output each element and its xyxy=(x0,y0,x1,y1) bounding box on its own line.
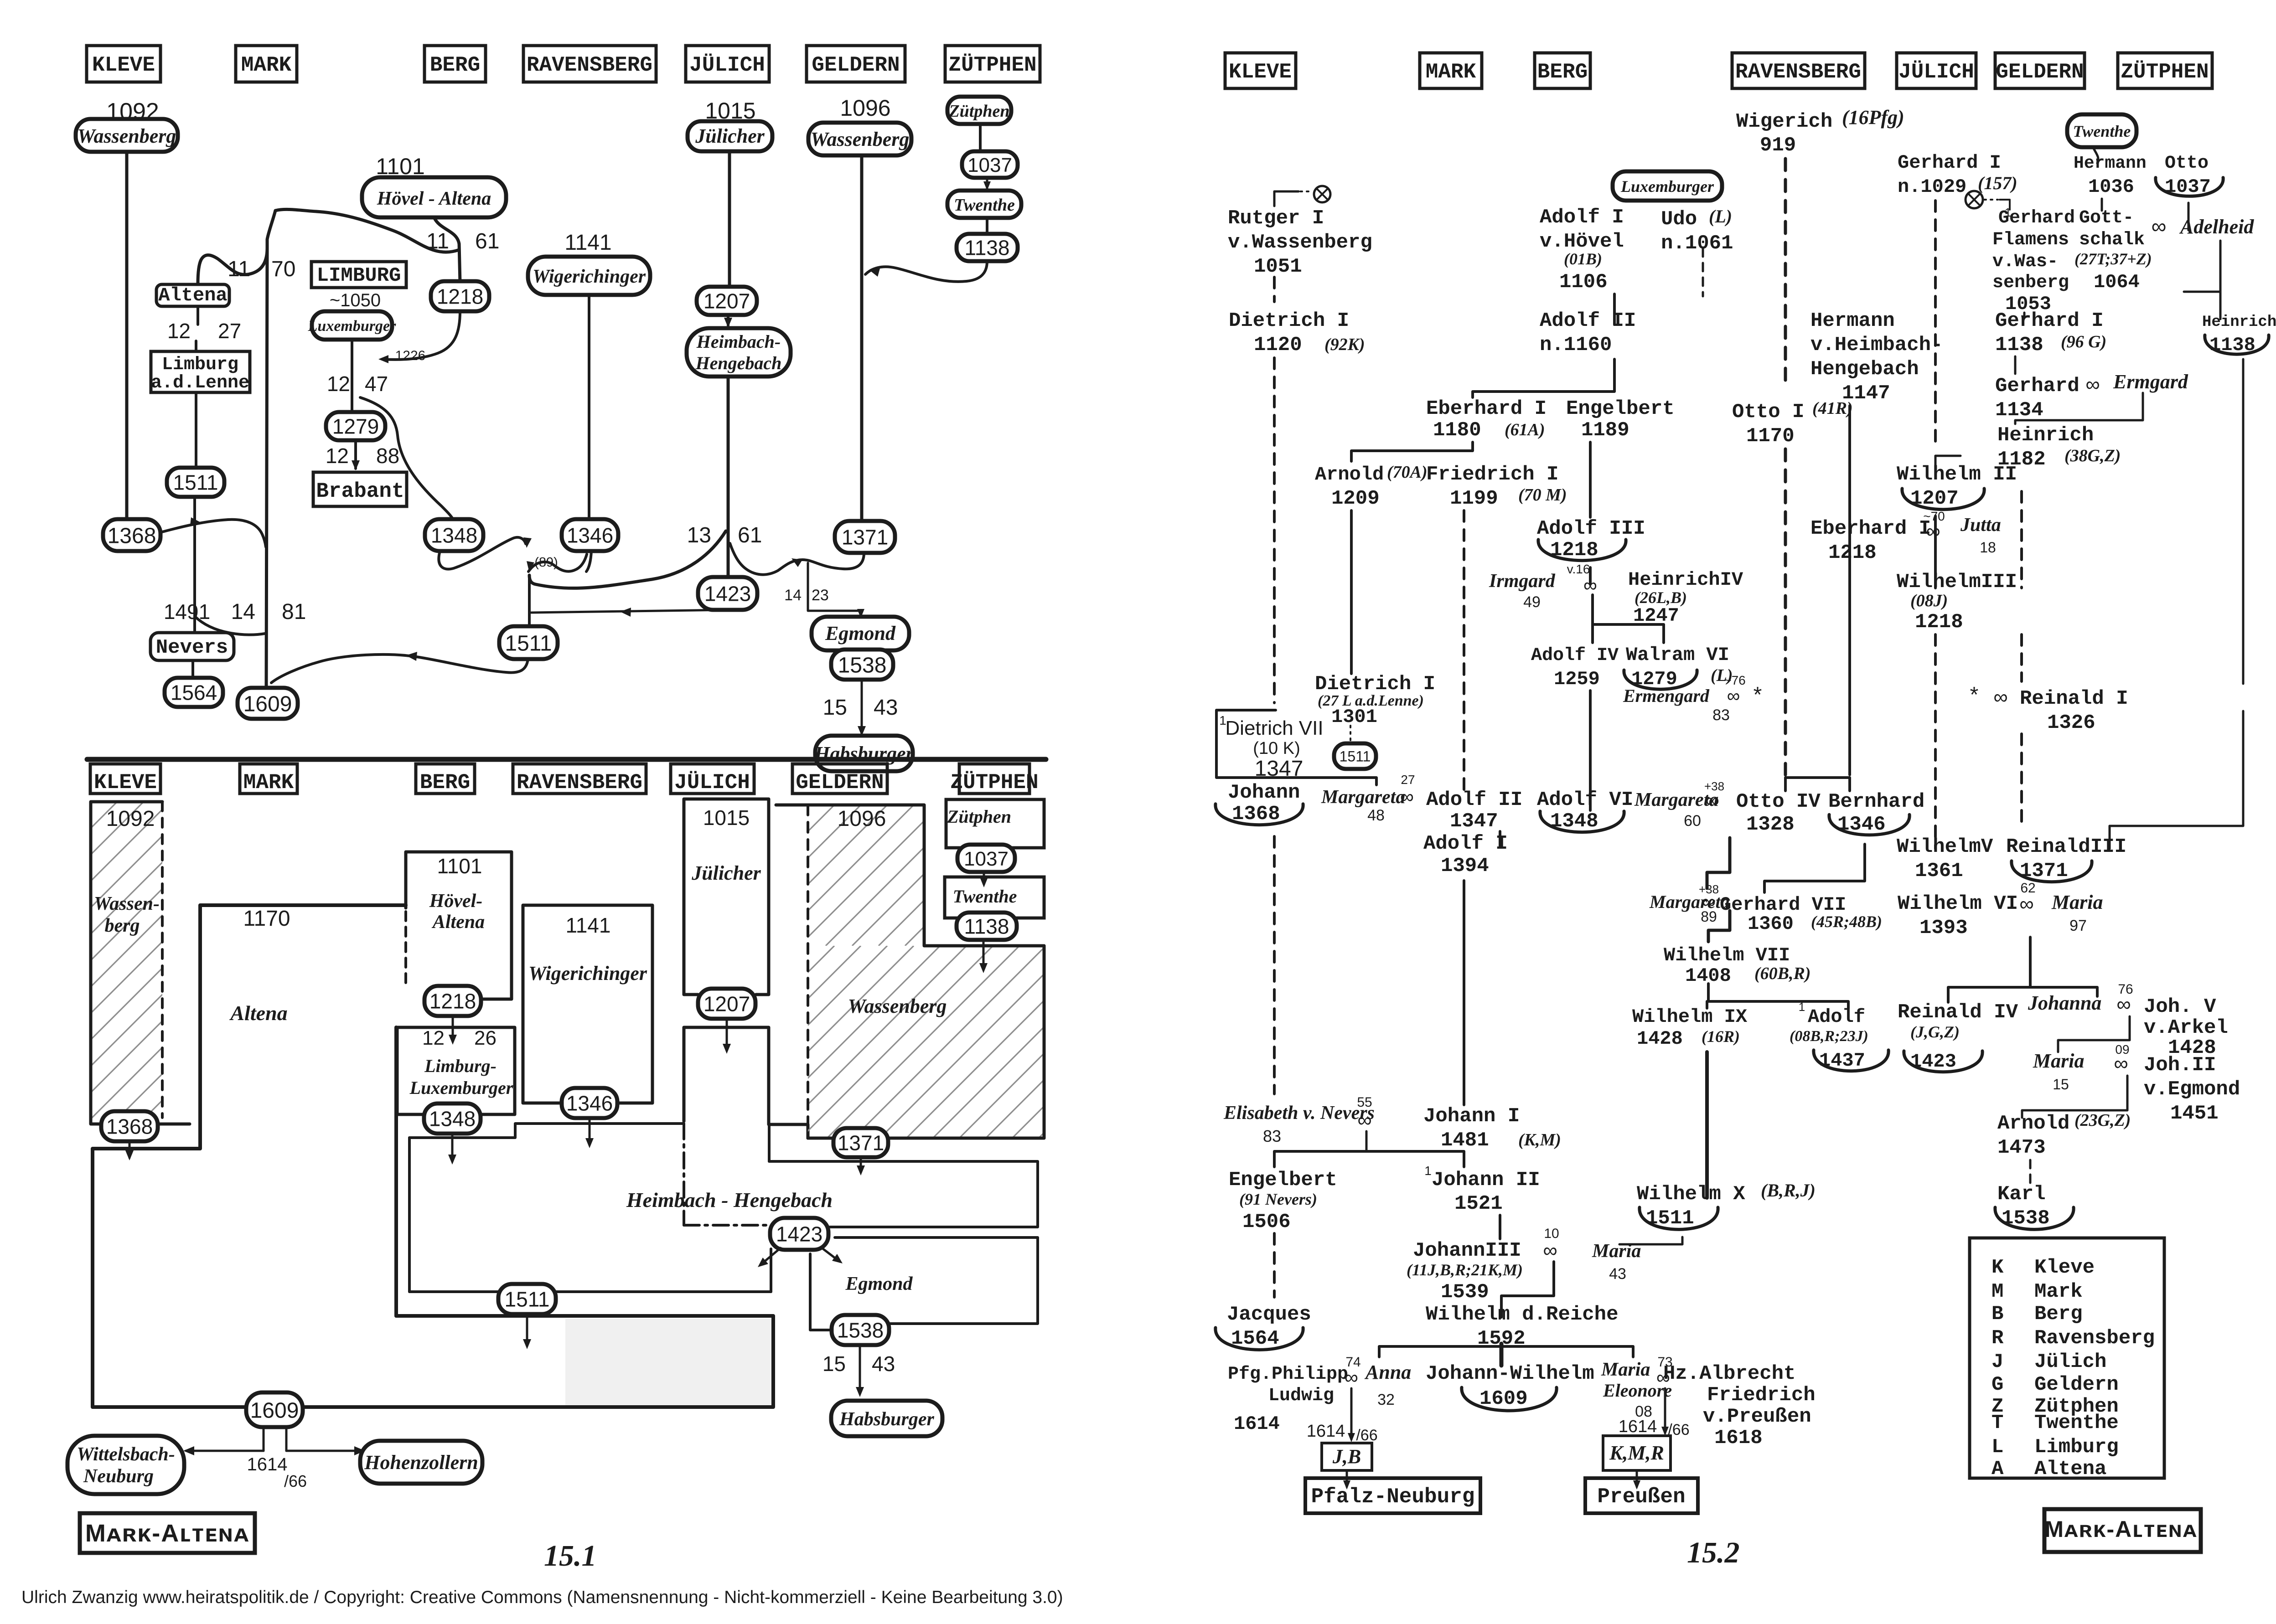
svg-text:1609: 1609 xyxy=(250,1398,299,1423)
oval 1138 (bottom chart) xyxy=(957,913,1017,940)
box JÜLICH (right page) xyxy=(1897,53,1976,88)
label 1614/66 left xyxy=(1307,1422,1378,1444)
svg-text:88: 88 xyxy=(376,444,399,468)
svg-text:MARK: MARK xyxy=(243,771,294,794)
node Jacques 1564 xyxy=(1216,1303,1311,1350)
node Gerhard VII 1360 (45R;48B) xyxy=(1720,894,1882,935)
oval Habsburger (top chart) xyxy=(814,736,914,771)
svg-text:1371: 1371 xyxy=(842,526,888,549)
node Wilhelm X (B,R,J) 1511 xyxy=(1637,1180,1816,1230)
wire Arnold line xyxy=(1350,510,1353,674)
wire Heimbach down to 1423 xyxy=(727,376,730,578)
svg-text:Adolf I: Adolf I xyxy=(1423,832,1508,855)
svg-text:Jülich: Jülich xyxy=(2034,1351,2106,1373)
svg-text:(26L,B): (26L,B) xyxy=(1635,588,1687,607)
svg-text:L: L xyxy=(1991,1436,2003,1459)
svg-text:Twenthe: Twenthe xyxy=(2073,122,2131,140)
legend row R Ravensberg xyxy=(1991,1327,2155,1350)
wire Kleve dashed 4 xyxy=(1273,1233,1276,1297)
svg-text:~1050: ~1050 xyxy=(330,290,381,310)
svg-text:Wilhelm II: Wilhelm II xyxy=(1897,463,2017,486)
svg-text:∞: ∞ xyxy=(2019,893,2033,915)
wire Twenthe to 1138 xyxy=(986,218,988,235)
label 12 26 xyxy=(422,1027,497,1049)
box Brabant xyxy=(313,472,407,506)
svg-text:∞: ∞ xyxy=(1727,686,1740,706)
label 1141 xyxy=(564,231,611,255)
node Johanna 76 xyxy=(2028,982,2133,1016)
svg-text:v.Preußen: v.Preußen xyxy=(1703,1405,1811,1428)
oval Wassenberg (Kleve origin) xyxy=(76,119,178,152)
oval 1511 (bottom chart) xyxy=(498,1284,556,1314)
wire Eberhard children elbow xyxy=(1351,442,1473,461)
node Adolf I v.Hövel (01B) 1106 xyxy=(1540,206,1624,294)
svg-text:1189: 1189 xyxy=(1581,419,1629,442)
svg-text:(23G,Z): (23G,Z) xyxy=(2074,1111,2131,1130)
oval Wassenberg (Geldern) xyxy=(808,123,911,155)
svg-text:∞: ∞ xyxy=(2152,214,2167,238)
wire Gerhard Flamens dashed down xyxy=(2023,313,2026,322)
box Jülicher 1015 (bottom chart) xyxy=(684,799,769,995)
svg-text:Luxemburger: Luxemburger xyxy=(308,318,396,335)
svg-text:(61A): (61A) xyxy=(1505,420,1545,439)
wire squiggle below 1247 xyxy=(360,397,453,520)
svg-text:Gott-: Gott- xyxy=(2079,208,2134,228)
svg-text:a.d.Lenne: a.d.Lenne xyxy=(151,373,249,393)
oval 1423 (top chart) xyxy=(698,577,757,610)
wire 1423 left arrow line xyxy=(531,608,728,617)
svg-text:Kleve: Kleve xyxy=(2034,1256,2095,1279)
wire Heinrich IV children elbow xyxy=(1593,595,1664,643)
oval Luxemburger xyxy=(308,311,396,340)
svg-text:Zütphen: Zütphen xyxy=(948,102,1009,121)
symbol marriage Adelheid xyxy=(2152,214,2255,238)
box K,M,R xyxy=(1603,1436,1671,1470)
wire Berg line xyxy=(1589,691,1592,810)
svg-text:Hengebach: Hengebach xyxy=(1810,358,1919,381)
svg-text:1618: 1618 xyxy=(1714,1427,1763,1449)
svg-text:Jülicher: Jülicher xyxy=(691,862,761,884)
svg-text:Adolf II: Adolf II xyxy=(1540,309,1636,332)
wire dotted to 1511 xyxy=(1350,726,1351,742)
svg-text:∞: ∞ xyxy=(1345,1366,1358,1388)
svg-text:Adolf I: Adolf I xyxy=(1540,206,1624,229)
wire step left of 1371 xyxy=(774,1123,808,1126)
node Wilhelm VI 1393 xyxy=(1898,892,2018,939)
svg-text:BERG: BERG xyxy=(1537,60,1588,84)
wire junction vertical 1423/Egmond xyxy=(808,563,864,618)
oval 1218 (top chart) xyxy=(431,281,489,311)
svg-text:T: T xyxy=(1991,1412,2003,1434)
wire Wilhelm II down xyxy=(1934,516,1937,588)
box JÜLICH (top chart header) xyxy=(686,46,769,82)
svg-text:Gerhard: Gerhard xyxy=(1998,208,2075,228)
svg-text:Ludwig: Ludwig xyxy=(1268,1386,1334,1406)
wire Wilhelm d.Reiche children elbow xyxy=(1379,1344,1633,1366)
svg-text:Altena: Altena xyxy=(431,912,485,933)
node Heinrich 1138 (right) xyxy=(2202,314,2276,356)
label (89) xyxy=(534,555,558,570)
node Gerhard I n.1029 (157) xyxy=(1898,152,2017,198)
box GELDERN (bottom chart) xyxy=(792,764,887,794)
svg-text:v.Wassenberg: v.Wassenberg xyxy=(1228,231,1372,254)
svg-text:1614: 1614 xyxy=(247,1454,288,1474)
oval 1037 (bottom chart) xyxy=(957,845,1015,872)
box LIMBURG xyxy=(311,262,406,288)
svg-text:(70A): (70A) xyxy=(1387,463,1428,482)
svg-text:1394: 1394 xyxy=(1441,855,1489,877)
node Ermengard ~76 * 83 xyxy=(1623,673,1762,724)
svg-text:1346: 1346 xyxy=(566,1092,613,1115)
oval 1609 (top chart) xyxy=(238,688,298,719)
label Hövel-Altena cursive xyxy=(429,891,485,933)
wire Adolf I to Adolf II xyxy=(1613,294,1616,325)
wire bracket Dietrich VII xyxy=(1216,710,1376,785)
oval 1609 (bottom chart) xyxy=(246,1392,303,1427)
wire Mark main line xyxy=(266,246,267,689)
svg-text:1347: 1347 xyxy=(1255,757,1304,781)
svg-text:Heinrich: Heinrich xyxy=(1997,424,2094,447)
svg-text:(B,R,J): (B,R,J) xyxy=(1761,1180,1816,1201)
wire 1279 to Brabant xyxy=(352,440,360,470)
wire Johann III marriage elbow xyxy=(1501,1262,1554,1317)
svg-text:J: J xyxy=(1991,1351,2003,1373)
svg-text:Adolf: Adolf xyxy=(1808,1006,1865,1028)
wire Ravensberg dashed lower xyxy=(1784,449,1787,775)
svg-text:1368: 1368 xyxy=(108,524,156,548)
wire 1346 bottom hook xyxy=(586,551,591,572)
wire Luxemburger down xyxy=(351,340,353,414)
svg-text:1360: 1360 xyxy=(1748,913,1794,935)
wire arrows from 1423 xyxy=(758,1247,843,1267)
wire Gerhard/Ermgard elbow xyxy=(2015,393,2143,424)
label 1096 (bottom chart) xyxy=(838,807,886,831)
node Walram VI 1279 (L) xyxy=(1624,644,1733,690)
svg-text:schalk: schalk xyxy=(2079,230,2145,250)
node Reinald IV (J,G,Z) 1423 xyxy=(1898,1001,2018,1072)
wire Hermann line xyxy=(1848,406,1851,775)
svg-text:berg: berg xyxy=(105,915,140,936)
label 1096 xyxy=(840,95,890,121)
label 15 43 xyxy=(823,696,898,720)
svg-text:K: K xyxy=(1991,1256,2004,1279)
label 1092 (top chart) xyxy=(106,98,159,125)
svg-text:1141: 1141 xyxy=(566,913,611,937)
box ZÜTPHEN (bottom chart) xyxy=(950,764,1038,794)
svg-text:Mark: Mark xyxy=(2034,1280,2083,1303)
wire Jülich line upper xyxy=(728,151,731,288)
label Wassenberg cursive (bottom chart) xyxy=(848,995,947,1017)
label 1614/66 right xyxy=(1619,1417,1690,1438)
svg-text:1301: 1301 xyxy=(1331,706,1377,728)
svg-text:WilhelmIII: WilhelmIII xyxy=(1897,571,2017,593)
svg-text:Dietrich VII: Dietrich VII xyxy=(1225,717,1323,739)
svg-text:Limburg: Limburg xyxy=(2034,1436,2119,1459)
node Dietrich I 1120 (92K) xyxy=(1229,309,1365,356)
svg-text:Ermengard: Ermengard xyxy=(1623,686,1710,706)
box Zütphen (bottom chart) xyxy=(946,799,1044,848)
oval 1346 (top chart) xyxy=(562,519,618,551)
svg-text:Wassenberg: Wassenberg xyxy=(811,128,910,150)
label 1491 xyxy=(164,600,210,624)
svg-text:(08B,R;23J): (08B,R;23J) xyxy=(1790,1028,1868,1045)
svg-text:15: 15 xyxy=(822,1352,846,1376)
svg-text:1326: 1326 xyxy=(2047,711,2095,734)
node Adolf III 1218 xyxy=(1537,517,1645,562)
svg-text:Luxemburger: Luxemburger xyxy=(409,1078,513,1098)
node Johann-Wilhelm 1609 xyxy=(1426,1362,1594,1411)
svg-text:Eberhard I: Eberhard I xyxy=(1810,517,1931,540)
oval Zütphen (top chart) xyxy=(947,97,1011,124)
wire arrow below 1207 xyxy=(723,1019,731,1054)
svg-text:KLEVE: KLEVE xyxy=(94,771,157,794)
wire 1138 squiggle to Geldern line xyxy=(865,261,987,282)
svg-text:1538: 1538 xyxy=(838,653,887,677)
svg-text:1: 1 xyxy=(1799,1000,1805,1014)
wire Mark line long xyxy=(1463,881,1465,1105)
svg-text:15.2: 15.2 xyxy=(1687,1536,1740,1569)
svg-text:Wilhelm VII: Wilhelm VII xyxy=(1664,944,1790,966)
wire arrow below 1368 xyxy=(125,1141,134,1160)
wire right marriage descent xyxy=(1661,1388,1669,1436)
svg-text:ReinaldIII: ReinaldIII xyxy=(2006,835,2126,858)
node WilhelmV 1361 xyxy=(1897,835,1993,882)
svg-text:60: 60 xyxy=(1684,812,1701,830)
node Otto I (41R) 1170 xyxy=(1732,399,1853,448)
svg-text:(16Pfg): (16Pfg) xyxy=(1842,106,1904,129)
wire Wilhelm X to Maria elbow xyxy=(1619,1237,1682,1244)
svg-text:1423: 1423 xyxy=(1910,1051,1956,1072)
svg-text:43: 43 xyxy=(874,696,898,720)
label 1092 (bottom chart) xyxy=(106,807,155,831)
svg-text:Adolf III: Adolf III xyxy=(1537,517,1645,540)
svg-text:Twenthe: Twenthe xyxy=(953,886,1017,907)
wire marriage arrows 1614/66 xyxy=(183,1446,365,1455)
wire 1511 to Nevers xyxy=(193,497,196,633)
svg-text:Heinrich: Heinrich xyxy=(2202,314,2276,331)
wire 1609 legs xyxy=(264,1427,286,1451)
svg-text:~76: ~76 xyxy=(1724,673,1746,687)
svg-text:(38G,Z): (38G,Z) xyxy=(2064,446,2121,465)
region grey shade bottom xyxy=(565,1319,771,1405)
box BERG (bottom chart) xyxy=(416,764,475,794)
node Heinrich 1182 (38G,Z) xyxy=(1997,424,2121,471)
node Eberhard I 1218 Jutta xyxy=(1810,509,2001,564)
legend row T Twenthe xyxy=(1991,1412,2119,1434)
svg-text:n.1061: n.1061 xyxy=(1661,232,1733,255)
svg-text:1218: 1218 xyxy=(1828,541,1877,564)
node Reinald I 1326 xyxy=(1970,683,2128,734)
svg-text:BERG: BERG xyxy=(430,53,480,77)
svg-text:Egmond: Egmond xyxy=(845,1273,913,1294)
wire Wilhelm II elbow xyxy=(1935,456,1960,472)
svg-text:Twenthe: Twenthe xyxy=(954,196,1015,215)
legend row G Geldern xyxy=(1991,1373,2119,1396)
oval 1279 xyxy=(326,412,385,440)
svg-text:27: 27 xyxy=(1401,773,1415,787)
svg-text:1347: 1347 xyxy=(1450,810,1498,833)
box GELDERN (right page) xyxy=(1995,53,2085,88)
label Egmond cursive (bottom chart) xyxy=(845,1273,913,1294)
wire arrow 1218 to Limburg-Luxemburger xyxy=(449,1016,457,1045)
node Wilhelm IX 1428 (16R) xyxy=(1632,1006,1748,1050)
svg-text:K,M,R: K,M,R xyxy=(1609,1442,1664,1464)
svg-text:1138: 1138 xyxy=(1995,334,2043,356)
svg-text:Pfg.Philipp: Pfg.Philipp xyxy=(1228,1364,1348,1385)
svg-text:Johann I: Johann I xyxy=(1423,1105,1520,1128)
svg-text:Walram VI: Walram VI xyxy=(1626,644,1729,666)
svg-text:n.1160: n.1160 xyxy=(1540,334,1612,356)
svg-text:1279: 1279 xyxy=(332,415,379,438)
svg-text:Maria: Maria xyxy=(2051,891,2103,913)
box KLEVE (right page) xyxy=(1225,53,1296,88)
node Margareta 60 xyxy=(1634,779,1724,830)
svg-text:48: 48 xyxy=(1367,807,1385,824)
wire Otto line down xyxy=(2188,203,2190,230)
wire Limburg to 1511 xyxy=(195,392,197,469)
box BERG (right page) xyxy=(1535,53,1590,88)
node Adolf II n.1160 xyxy=(1540,309,1636,356)
oval 1207 (top chart) xyxy=(697,287,757,315)
svg-text:89: 89 xyxy=(1701,908,1717,925)
svg-text:/66: /66 xyxy=(284,1472,307,1490)
oval 1538 (bottom chart) xyxy=(832,1315,889,1345)
svg-text:Heimbach-: Heimbach- xyxy=(696,331,781,352)
svg-text:Altena: Altena xyxy=(2034,1458,2106,1480)
svg-text:(60B,R): (60B,R) xyxy=(1754,964,1811,983)
wire squiggle Hövel-Altena to Mark/Altena xyxy=(275,209,459,252)
svg-text:n.1029: n.1029 xyxy=(1898,176,1966,198)
svg-text:1428: 1428 xyxy=(1637,1028,1683,1050)
node Wigerich (16Pfg) 919 xyxy=(1736,106,1904,157)
svg-text:Johann: Johann xyxy=(1228,781,1300,804)
svg-text:Dietrich I: Dietrich I xyxy=(1229,309,1349,332)
svg-text:G: G xyxy=(1991,1373,2003,1396)
svg-text:Pfalz-Neuburg: Pfalz-Neuburg xyxy=(1311,1485,1475,1509)
wire Wilhelm VI children elbow xyxy=(1948,987,2097,1002)
svg-text:Hövel - Altena: Hövel - Altena xyxy=(377,188,491,209)
svg-text:1423: 1423 xyxy=(704,582,751,606)
svg-text:Wilhelm X: Wilhelm X xyxy=(1637,1183,1745,1206)
svg-text:ZÜTPHEN: ZÜTPHEN xyxy=(950,771,1038,794)
svg-text:MARK: MARK xyxy=(241,53,292,77)
box JÜLICH (bottom chart) xyxy=(671,764,754,794)
svg-text:Hermann: Hermann xyxy=(1810,309,1895,332)
svg-text:Gerhard I: Gerhard I xyxy=(1995,309,2104,332)
svg-text:B: B xyxy=(1991,1303,2003,1325)
box GELDERN (top chart header) xyxy=(807,46,905,82)
node Margareta 38/89 xyxy=(1649,882,1730,925)
svg-text:1564: 1564 xyxy=(171,681,217,705)
svg-text:BERG: BERG xyxy=(420,771,470,794)
svg-text:∞: ∞ xyxy=(1400,786,1414,807)
svg-text:1423: 1423 xyxy=(776,1222,822,1246)
svg-text:1393: 1393 xyxy=(1919,917,1968,939)
svg-text:Wassen-: Wassen- xyxy=(94,893,160,914)
svg-text:Irmgard: Irmgard xyxy=(1489,571,1556,592)
oval 1511 small (right page) xyxy=(1334,743,1376,769)
wire Johanna to Maria(Arkel) elbow xyxy=(2058,1016,2130,1052)
svg-text:Altena: Altena xyxy=(229,1001,287,1025)
node Gerhard 1134 Ermgard xyxy=(1995,371,2188,422)
label 14 81 xyxy=(231,600,306,624)
wire arrow below 1138 into Wassenberg xyxy=(979,940,988,973)
node Johann 1368 xyxy=(1216,781,1303,825)
svg-text:Limburg-: Limburg- xyxy=(424,1056,497,1076)
svg-text:∞: ∞ xyxy=(1706,789,1719,811)
svg-text:Reinald IV: Reinald IV xyxy=(1898,1001,2018,1024)
node Rutger I v.Wassenberg 1051 xyxy=(1228,207,1372,278)
node Adolf II 1347 xyxy=(1426,789,1522,833)
svg-text:v.Egmond: v.Egmond xyxy=(2144,1078,2240,1101)
wire arrow below 1511 xyxy=(523,1314,531,1349)
svg-text:KLEVE: KLEVE xyxy=(1229,60,1292,84)
symbol marriage 55 xyxy=(1357,1095,1372,1131)
oval Habsburger (bottom chart) xyxy=(831,1401,942,1436)
wire Heinrich right line xyxy=(2242,359,2245,684)
svg-text:Elisabeth v. Nevers: Elisabeth v. Nevers xyxy=(1223,1103,1375,1124)
svg-text:Ravensberg: Ravensberg xyxy=(2034,1327,2155,1350)
node Otto 1037 xyxy=(2156,153,2223,198)
box Limburg a.d.Lenne xyxy=(151,351,250,393)
oval 1346 (bottom chart) xyxy=(562,1088,617,1118)
node Wilhelm III (08J) 1218 xyxy=(1897,571,2017,634)
svg-text:Otto: Otto xyxy=(2165,153,2209,174)
box J,B xyxy=(1322,1443,1372,1470)
box ZÜTPHEN (top chart header) xyxy=(945,46,1040,82)
svg-text:1218: 1218 xyxy=(437,285,483,309)
node Adolf I 1394 xyxy=(1423,832,1508,877)
wire Geldern main line xyxy=(860,155,864,523)
svg-text:J,B: J,B xyxy=(1332,1445,1361,1468)
svg-text:∞: ∞ xyxy=(1357,1109,1371,1131)
oval Egmond (top chart) xyxy=(812,617,909,650)
wire 1423 to 1538 elbow xyxy=(810,1254,832,1330)
svg-text:v.Heimbach-: v.Heimbach- xyxy=(1810,334,1943,356)
svg-text:(157): (157) xyxy=(1978,173,2017,193)
box KLEVE (top-left chart header) xyxy=(87,46,160,82)
svg-text:Friedrich: Friedrich xyxy=(1707,1384,1816,1407)
region 1096 Wassenberg hatched (bottom chart) xyxy=(642,805,1231,1138)
svg-text:1015: 1015 xyxy=(703,806,750,830)
oval Wittelsbach-Neuburg xyxy=(67,1436,184,1494)
svg-text:1134: 1134 xyxy=(1995,399,2043,422)
svg-text:1371: 1371 xyxy=(838,1131,884,1155)
legend row L Limburg xyxy=(1991,1436,2119,1459)
node Hermann v.Heimbach-Hengebach 1147 xyxy=(1810,309,1943,405)
svg-text:1259: 1259 xyxy=(1554,668,1600,690)
svg-text:Otto IV: Otto IV xyxy=(1736,790,1821,813)
box Hövel-Altena 1101 (bottom chart) xyxy=(406,852,512,999)
svg-text:Anna: Anna xyxy=(1364,1361,1411,1383)
svg-text:Karl: Karl xyxy=(1997,1183,2046,1206)
wire Maria to Arnold elbow xyxy=(2022,1076,2127,1118)
label 15 43 (bottom chart) xyxy=(822,1352,895,1376)
svg-text:*: * xyxy=(1970,683,1979,707)
legend row M Mark xyxy=(1991,1280,2083,1303)
box Limburg-Luxemburger xyxy=(397,1027,515,1114)
svg-text:(K,M): (K,M) xyxy=(1518,1130,1561,1150)
label 1101 (bottom chart) xyxy=(437,854,482,878)
svg-text:919: 919 xyxy=(1760,134,1796,157)
svg-text:Preußen: Preußen xyxy=(1597,1485,1685,1509)
box Egmond region xyxy=(835,1237,1038,1324)
box Nevers xyxy=(150,633,234,660)
svg-text:Wigerichinger: Wigerichinger xyxy=(528,962,647,985)
wire Otto IV to Margareta38 junction xyxy=(1707,838,1730,888)
wire 1368 to Mark line curve xyxy=(160,517,266,547)
node Friedrich I 1199 (70M) xyxy=(1426,463,1567,510)
